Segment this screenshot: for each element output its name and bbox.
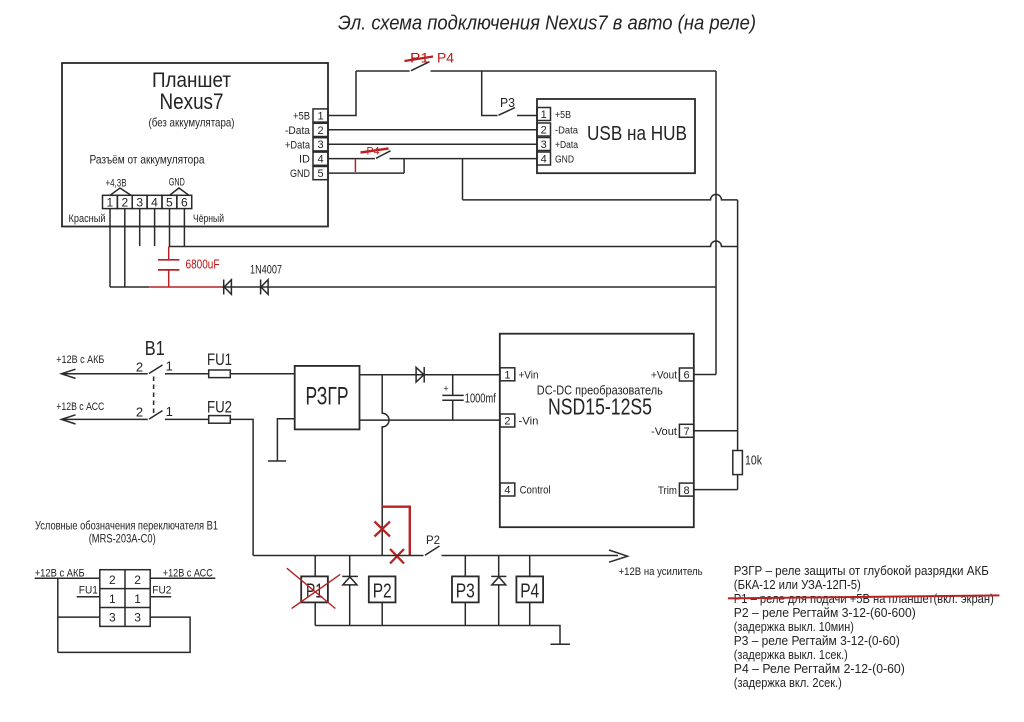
svg-text:1: 1 (166, 359, 173, 374)
svg-text:4: 4 (504, 485, 510, 497)
wire tablet GND pin5 (328, 172, 404, 174)
wire +5V vertical line down to +Vout (715, 71, 717, 375)
red cut X on rail (390, 549, 404, 564)
svg-text:5: 5 (166, 195, 173, 209)
svg-text:+: + (443, 384, 448, 394)
svg-text:10k: 10k (745, 453, 762, 468)
label legend FU2 (152, 585, 171, 597)
diode VD1 1N4007 (224, 280, 232, 295)
switch B1 upper blade (149, 365, 163, 374)
wire legend bottom loop (58, 617, 190, 652)
svg-text:-Vin: -Vin (519, 416, 539, 428)
wire GND node vertical to -Vout and Trim (737, 200, 739, 451)
label +12V from battery (56, 354, 104, 366)
legend relay descriptions (734, 563, 994, 690)
svg-text:Условные обозначения переключа: Условные обозначения переключателя B1 (35, 519, 218, 533)
NSD pin 6 +Vout (651, 368, 694, 382)
svg-text:+5В: +5В (555, 110, 571, 121)
diode VD2 1N4007 (261, 280, 269, 295)
svg-text:FU2: FU2 (152, 585, 171, 597)
label contact 2 upper (136, 360, 143, 375)
svg-text:+Vin: +Vin (519, 370, 539, 382)
svg-text:P2: P2 (426, 533, 440, 547)
svg-text:FU1: FU1 (79, 585, 98, 597)
svg-text:4: 4 (317, 154, 323, 166)
svg-text:2: 2 (121, 195, 128, 209)
svg-text:+12В с АКБ: +12В с АКБ (56, 354, 104, 366)
svg-text:2: 2 (134, 573, 141, 587)
label P1 red struck (405, 50, 434, 66)
svg-text:Trim: Trim (658, 485, 677, 497)
diode VD5 across P3 (491, 556, 506, 626)
red jog wire (382, 507, 410, 556)
red cut X on branch (375, 522, 391, 537)
title (338, 12, 756, 35)
red strike through P1 legend line (728, 595, 1000, 598)
relay P2 (369, 576, 396, 602)
svg-text:FU1: FU1 (207, 350, 232, 369)
label 1N4007 (250, 263, 282, 277)
svg-text:1: 1 (541, 109, 547, 121)
svg-text:1: 1 (504, 370, 510, 382)
wire +12V branch down to rail with hop (382, 375, 389, 556)
switch P3 blade (499, 108, 516, 116)
wire +4.3V line black right part (222, 286, 716, 288)
svg-text:Nexus7: Nexus7 (160, 89, 224, 114)
svg-text:(БКА-12 или УЗА-12П-5): (БКА-12 или УЗА-12П-5) (734, 577, 861, 592)
svg-text:GND: GND (555, 155, 574, 166)
svg-text:6: 6 (684, 370, 690, 382)
svg-text:Красный: Красный (69, 213, 106, 225)
svg-text:GND: GND (290, 168, 310, 180)
svg-text:USB на HUB: USB на HUB (587, 123, 687, 145)
NSD pin 2 -Vin (500, 414, 539, 428)
svg-text:1: 1 (134, 592, 141, 606)
label legend +12V ACC (163, 568, 213, 580)
svg-text:Control: Control (520, 485, 551, 497)
svg-text:2: 2 (504, 416, 510, 428)
svg-text:РЗГР: РЗГР (306, 383, 349, 411)
wire +Vout pin6 to +5V vertical (694, 374, 716, 376)
wire P3 coil top (464, 556, 466, 577)
svg-text:NSD15-12S5: NSD15-12S5 (548, 394, 652, 420)
tablet box U1 Планшет Nexus7 (62, 63, 328, 227)
svg-text:4: 4 (151, 195, 158, 209)
label legend FU1 (79, 585, 98, 597)
wire +4.3V line red replaced segment (149, 286, 222, 288)
diode VD3 on +12V wire (416, 367, 424, 383)
svg-text:3: 3 (541, 139, 547, 151)
wire P2 coil bottom (381, 602, 383, 625)
wire resistor to Trim level (737, 475, 739, 490)
svg-text:GND: GND (169, 176, 185, 188)
wire relay rail right (442, 555, 619, 557)
wire P4 coil bottom (529, 602, 531, 625)
svg-text:(без аккумулятара): (без аккумулятара) (149, 116, 235, 130)
wire ID-GND drop (403, 159, 405, 174)
svg-text:+12В с АСС: +12В с АСС (56, 401, 104, 413)
fuse FU2 (207, 398, 232, 424)
wire red bypass tick (354, 159, 356, 172)
wire P1 coil bottom (314, 602, 316, 625)
label legend +12V AKB (35, 568, 85, 580)
wire -Vout pin7 to node (694, 430, 738, 432)
NSD pin 4 Control (500, 483, 551, 497)
wire ID branch down to line A (462, 159, 464, 200)
wire +Data (328, 143, 537, 145)
label contact 1 lower (166, 404, 173, 419)
wire connector pin4 stub (154, 209, 156, 246)
relay P4 (516, 576, 543, 602)
wire top +5V line left (356, 70, 410, 72)
DC-DC converter box U3 NSD15-12S5 (500, 334, 694, 528)
svg-text:5: 5 (317, 168, 323, 180)
label B1 (145, 338, 165, 360)
svg-text:Р2 – реле Регтайм 3-12-(60-600: Р2 – реле Регтайм 3-12-(60-600) (734, 605, 916, 620)
NSD pin 1 +Vin (500, 368, 539, 382)
svg-text:Р3 – реле Регтайм 3-12-(0-60): Р3 – реле Регтайм 3-12-(0-60) (734, 633, 900, 648)
wire ACC to switch B1 (61, 418, 147, 420)
wire AKB to switch B1 (61, 373, 147, 375)
ground relay common (551, 643, 571, 645)
label contact 1 upper (166, 359, 173, 374)
wire tablet pin1 +5B (328, 71, 356, 116)
wire line A to GND node with hop (463, 194, 738, 199)
svg-text:4: 4 (541, 154, 547, 166)
svg-text:1N4007: 1N4007 (250, 263, 282, 277)
relay P1 crossed out (287, 568, 340, 608)
svg-text:-Vout: -Vout (651, 426, 677, 438)
wire legend ACC to row2 (150, 577, 215, 579)
svg-text:2: 2 (541, 125, 547, 137)
svg-text:8: 8 (684, 485, 690, 497)
wire +4.3V line black left part (110, 286, 149, 288)
arrow +12V ACC (61, 415, 75, 424)
fuse FU1 (207, 350, 232, 378)
wire top +5V line right (431, 70, 717, 72)
USB pin header pins 1-4 (537, 108, 578, 166)
switch P4 blade top (411, 62, 430, 71)
svg-text:РЗГР – реле защиты от глубокой: РЗГР – реле защиты от глубокой разрядки … (734, 563, 989, 578)
label contact 2 lower (136, 405, 143, 420)
USB hub box U2 (537, 99, 695, 173)
svg-text:ID: ID (299, 154, 310, 166)
svg-text:Р4 – Реле Регтайм 2-12-(0-60): Р4 – Реле Регтайм 2-12-(0-60) (734, 661, 905, 676)
svg-text:+5В: +5В (293, 111, 310, 123)
svg-text:Эл. схема подключения Nexus7 в: Эл. схема подключения Nexus7 в авто (на … (338, 12, 756, 35)
label P3 (500, 95, 515, 110)
svg-text:1000mf: 1000mf (465, 391, 496, 406)
legend table B1 (100, 570, 150, 627)
NSD pin 8 Trim (658, 483, 694, 497)
relay RZGR box (295, 366, 360, 430)
wire P3 to USB pin1 (517, 115, 537, 117)
svg-text:1: 1 (166, 404, 173, 419)
svg-text:+4,3В: +4,3В (106, 178, 127, 190)
capacitor C2 1000mf (442, 375, 496, 420)
svg-text:+12В на усилитель: +12В на усилитель (619, 566, 703, 578)
wire connector pin2 down (124, 209, 126, 287)
label P2 switch (426, 533, 440, 547)
wire connector pin5 down (169, 209, 171, 247)
wire RZGR -Vin line (360, 419, 501, 421)
switch P4 blade on ID line (376, 151, 391, 159)
arrow +12V to amplifier (609, 550, 628, 562)
wire RZGR to chassis ground (277, 419, 294, 461)
wire relay common bottom line (315, 626, 560, 645)
wire legend AKB to row2 (35, 577, 100, 579)
switch B1 lower blade (149, 411, 163, 420)
svg-text:7: 7 (684, 426, 690, 438)
wire P3 coil bottom (464, 602, 466, 625)
svg-text:B1: B1 (145, 338, 165, 360)
svg-text:(задержка вкл. 2сек.): (задержка вкл. 2сек.) (734, 675, 842, 690)
svg-text:P3: P3 (500, 95, 515, 110)
svg-text:Р3: Р3 (456, 581, 475, 603)
wire legend left vertical (57, 578, 59, 652)
tablet right pin header pins 1-5 (285, 109, 328, 180)
svg-text:3: 3 (109, 611, 116, 625)
resistor R1 10k (733, 451, 763, 475)
svg-text:FU2: FU2 (207, 398, 232, 417)
svg-text:3: 3 (136, 195, 143, 209)
svg-text:1: 1 (109, 592, 116, 606)
capacitor C1 6800uF red (158, 247, 220, 288)
svg-text:(задержка выкл. 1сек.): (задержка выкл. 1сек.) (734, 647, 848, 662)
svg-text:(MRS-203A-C0): (MRS-203A-C0) (89, 534, 156, 546)
svg-text:6800uF: 6800uF (186, 257, 220, 272)
wire ID continues to USB pin4 (390, 158, 538, 160)
wire connector pin3 stub (139, 209, 141, 246)
wire connector pin1 down (109, 209, 111, 287)
wire GND rail with hop (170, 241, 738, 246)
svg-text:2: 2 (136, 360, 143, 375)
svg-text:P4: P4 (437, 50, 454, 66)
svg-text:(задержка выкл. 10мин): (задержка выкл. 10мин) (734, 619, 854, 634)
wire P1 coil top (314, 556, 316, 577)
wire Trim pin8 to node (694, 489, 738, 491)
wire relay rail left (253, 555, 423, 557)
wire legend FU2 to row1 (150, 596, 171, 598)
svg-text:Разъём от аккумулятора: Разъём от аккумулятора (90, 153, 205, 167)
wire connector pin6 down (183, 209, 185, 247)
svg-text:1: 1 (317, 110, 323, 122)
svg-text:2: 2 (317, 125, 323, 137)
svg-text:Чёрный: Чёрный (193, 213, 224, 225)
svg-text:3: 3 (134, 611, 141, 625)
svg-text:6: 6 (181, 195, 188, 209)
label +12V na usilitel (619, 566, 703, 578)
wire -Data (328, 129, 537, 131)
wire ID to switch (328, 158, 375, 160)
wire P3 branch down (482, 71, 498, 116)
NSD pin 7 -Vout (651, 424, 694, 438)
svg-text:+Data: +Data (555, 140, 578, 151)
legend B1 title (35, 519, 218, 546)
svg-text:Р2: Р2 (373, 581, 392, 603)
label +12V from ACC (56, 401, 104, 413)
battery connector X1 pins 1-6 (69, 176, 225, 225)
wire FU1 to RZGR (230, 373, 294, 375)
switch B1 mechanical link dashed (153, 377, 155, 417)
switch P2 blade (425, 546, 440, 555)
diode VD4 across P1 (342, 556, 358, 626)
relay P3 (452, 576, 479, 602)
wire legend FU1 to row1 (77, 596, 100, 598)
wire legend row3 left (58, 616, 100, 618)
svg-text:+Vout: +Vout (651, 370, 677, 382)
ground below RZGR (268, 460, 286, 462)
wire switch to FU2 (165, 418, 209, 420)
svg-text:2: 2 (109, 573, 116, 587)
label P4 red (437, 50, 454, 66)
svg-text:Р4: Р4 (520, 581, 539, 603)
label P4 red struck on ID line (361, 146, 389, 158)
svg-text:2: 2 (136, 405, 143, 420)
wire P4 coil top (529, 556, 531, 577)
svg-text:-Data: -Data (285, 125, 311, 137)
wire FU2 right and down to relay rail (230, 419, 253, 555)
svg-text:1: 1 (107, 195, 114, 209)
arrow +12V AKB (61, 369, 75, 378)
svg-text:3: 3 (317, 139, 323, 151)
wire RZGR +12V output (360, 374, 501, 376)
wire switch to FU1 (165, 373, 209, 375)
svg-text:+Data: +Data (285, 139, 311, 151)
svg-text:-Data: -Data (555, 126, 578, 137)
